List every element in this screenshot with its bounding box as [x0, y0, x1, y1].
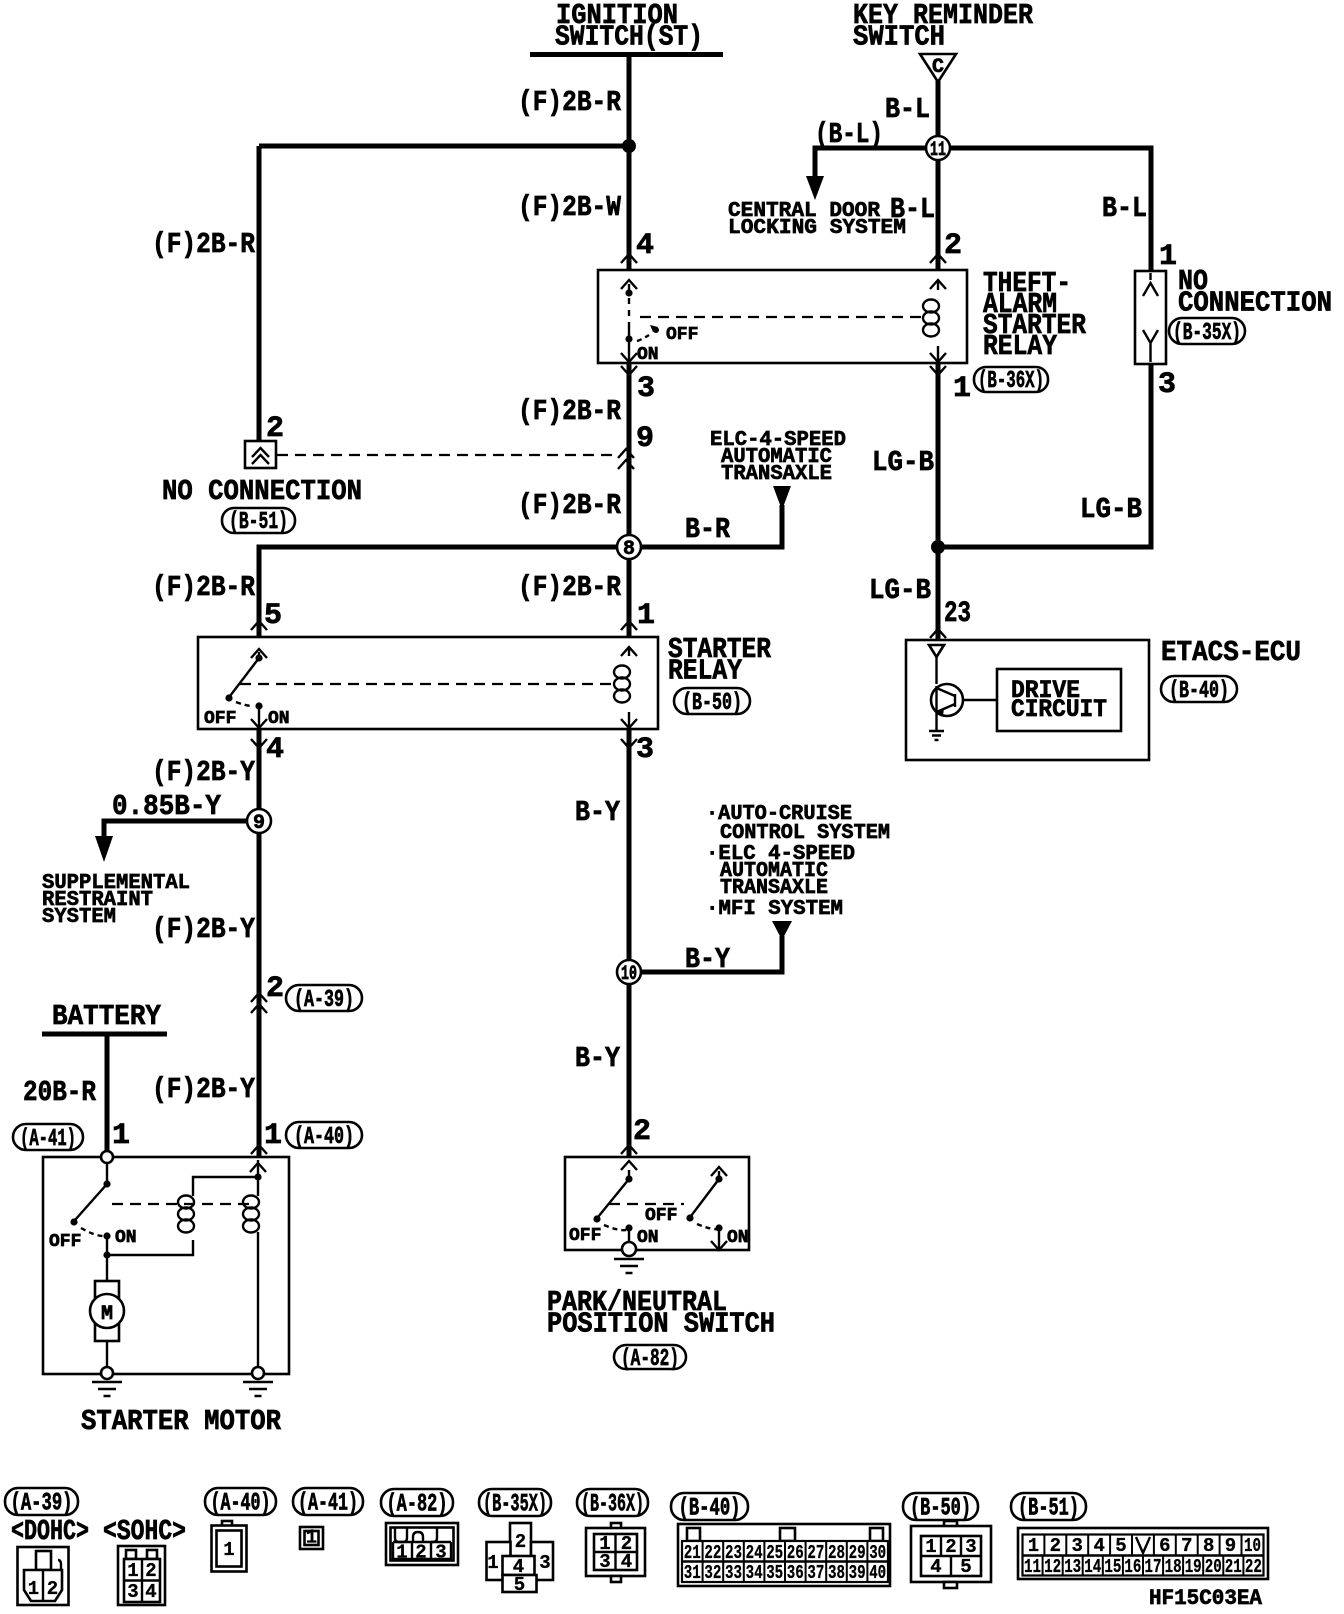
svg-text:BATTERY: BATTERY: [52, 1000, 162, 1033]
svg-text:2: 2: [1050, 1535, 1061, 1557]
ignition switch (ST) label: [555, 0, 703, 54]
svg-text:ON: ON: [268, 709, 290, 729]
theft relay coil: [923, 281, 939, 361]
svg-text:33: 33: [725, 1562, 742, 1584]
svg-text:22: 22: [704, 1542, 721, 1564]
transistor Q1 drive: [931, 657, 997, 730]
svg-text:29: 29: [849, 1542, 866, 1564]
svg-text:1: 1: [487, 1552, 498, 1574]
svg-text:4: 4: [636, 229, 654, 263]
NO CONNECTION label right: [1178, 265, 1332, 320]
svg-text:0.85B-Y: 0.85B-Y: [112, 790, 222, 823]
wire theft pin3 down to node 8: [627, 363, 632, 637]
connector pill B-51: [1011, 1493, 1086, 1523]
svg-text:(B-50): (B-50): [682, 690, 742, 717]
svg-text:(B-35X): (B-35X): [1173, 320, 1241, 347]
svg-text:OFF: OFF: [204, 709, 236, 729]
connector pill B-40: [1161, 676, 1237, 705]
svg-text:8: 8: [1203, 1535, 1214, 1557]
svg-text:(B-51): (B-51): [1018, 1494, 1079, 1523]
svg-text:2: 2: [945, 1536, 956, 1558]
svg-text:SYSTEM: SYSTEM: [42, 905, 116, 929]
arrow to central door locking system: [806, 176, 824, 200]
svg-text:1: 1: [223, 1539, 234, 1561]
ground symbol right: [243, 1382, 273, 1396]
connector pill A-39: [286, 985, 362, 1014]
wire battery down: [105, 1034, 110, 1152]
svg-text:TRANSAXLE: TRANSAXLE: [721, 462, 832, 486]
connector pill A-40: [286, 1122, 362, 1151]
svg-text:(B-36X): (B-36X): [978, 368, 1044, 395]
svg-text:B-R: B-R: [685, 513, 731, 546]
node 11: [926, 136, 950, 162]
starter relay dashed link: [240, 683, 612, 685]
pin 3 exit chevron below theft box: [621, 366, 637, 375]
svg-text:1: 1: [127, 1560, 138, 1582]
svg-text:(B-36X): (B-36X): [581, 1490, 644, 1519]
A-82 pin2 chevrons: [621, 1145, 637, 1154]
svg-text:4: 4: [266, 733, 284, 767]
svg-text:3: 3: [127, 1581, 138, 1603]
svg-text:2: 2: [266, 972, 284, 1006]
drive circuit box: [997, 669, 1121, 731]
wire left branch down to B-51: [257, 146, 262, 442]
svg-text:1: 1: [1028, 1535, 1039, 1557]
svg-text:(A-82): (A-82): [387, 1490, 448, 1519]
svg-text:2: 2: [145, 1560, 156, 1582]
starter motor dashed link: [112, 1203, 250, 1205]
svg-text:C: C: [932, 56, 944, 79]
svg-text:ETACS-ECU: ETACS-ECU: [1161, 636, 1301, 669]
svg-text:1: 1: [925, 1536, 936, 1558]
svg-text:(F)2B-R: (F)2B-R: [152, 228, 256, 261]
svg-text:·MFI SYSTEM: ·MFI SYSTEM: [706, 897, 843, 921]
svg-text:ON: ON: [637, 1228, 659, 1248]
svg-text:1: 1: [112, 1119, 130, 1153]
ground ring left: [101, 1367, 113, 1379]
battery terminal bar: [42, 1032, 167, 1037]
svg-text:LG-B: LG-B: [869, 574, 931, 607]
arrow from ELC transaxle: [773, 486, 791, 510]
svg-text:2: 2: [515, 1531, 526, 1553]
connector B-36X pinout: [586, 1523, 645, 1582]
svg-text:3: 3: [965, 1536, 976, 1558]
pin 5 chevrons: [251, 621, 267, 630]
connector pill A-82: [614, 1345, 686, 1373]
node 8: [617, 535, 641, 561]
wire node8 left branch: [259, 547, 629, 637]
wire B-35X down and across: [938, 364, 1151, 547]
park dashed link: [609, 1203, 684, 1205]
wire ELC arrow to node 8: [629, 505, 782, 547]
svg-text:5: 5: [960, 1556, 971, 1578]
svg-text:SWITCH: SWITCH: [853, 21, 945, 54]
svg-text:(F)2B-Y: (F)2B-Y: [152, 756, 256, 789]
connector A-40 pinout: [212, 1521, 247, 1572]
svg-text:LG-B: LG-B: [1080, 493, 1142, 526]
svg-text:11: 11: [1024, 1556, 1041, 1578]
svg-text:4: 4: [1093, 1535, 1104, 1557]
svg-text:1: 1: [953, 372, 971, 406]
svg-text:(B-35X): (B-35X): [483, 1490, 547, 1519]
svg-text:12: 12: [1044, 1556, 1061, 1578]
svg-text:B-L: B-L: [890, 193, 935, 226]
svg-text:4: 4: [621, 1551, 632, 1573]
connector B-50 pinout: [911, 1521, 991, 1588]
wire horizontal ignition branch: [259, 144, 629, 149]
wire MFI arrow to node 10: [629, 936, 782, 972]
svg-text:23: 23: [944, 597, 971, 631]
svg-text:2: 2: [415, 1542, 426, 1564]
svg-text:RELAY: RELAY: [668, 655, 743, 688]
svg-text:(B-40): (B-40): [1169, 678, 1229, 705]
svg-text:5: 5: [514, 1574, 525, 1596]
svg-text:15: 15: [1104, 1556, 1121, 1578]
svg-text:3: 3: [539, 1552, 550, 1574]
svg-text:28: 28: [828, 1542, 845, 1564]
svg-text:39: 39: [849, 1562, 866, 1584]
park ground ring: [622, 1242, 636, 1256]
auto-cruise / ELC / MFI list: [706, 802, 890, 921]
connector pill B-50: [903, 1493, 978, 1523]
pull-in coil: [178, 1177, 258, 1233]
svg-text:18: 18: [1165, 1556, 1182, 1578]
svg-text:CIRCUIT: CIRCUIT: [1011, 695, 1107, 724]
junction LG-B: [931, 540, 945, 554]
ELC-4-speed automatic transaxle label: [710, 428, 846, 486]
svg-text:STARTER MOTOR: STARTER MOTOR: [81, 1405, 282, 1438]
ETACS pin triangle: [929, 645, 944, 657]
ignition switch terminal bar: [530, 52, 723, 57]
svg-text:B-L: B-L: [885, 93, 930, 126]
connector B-35X pinout: [487, 1523, 554, 1596]
svg-text:3: 3: [1158, 368, 1176, 402]
node 9: [247, 809, 271, 835]
svg-text:21: 21: [1225, 1556, 1242, 1578]
starter relay label: [668, 633, 772, 688]
junction ignition branch: [622, 139, 636, 153]
pin 23 chevron above ETACS: [930, 629, 946, 638]
svg-text:8: 8: [623, 538, 635, 561]
svg-text:4: 4: [145, 1581, 156, 1603]
wire node9 branch to SRS: [104, 821, 247, 838]
park ground symbol: [614, 1259, 644, 1273]
hold-in coil: [243, 1160, 266, 1371]
svg-text:(F)2B-R: (F)2B-R: [518, 489, 622, 522]
ground ring right: [252, 1367, 264, 1379]
motor M: [90, 1255, 124, 1368]
connector pill A-41: [13, 1124, 83, 1153]
svg-text:ON: ON: [637, 345, 659, 365]
pin 4 chevron below box: [251, 739, 267, 748]
connector pill B-36X: [577, 1489, 648, 1519]
central door locking system label: [728, 199, 906, 240]
svg-text:(B-50): (B-50): [910, 1494, 971, 1523]
svg-text:10: 10: [621, 963, 637, 986]
svg-text:NO CONNECTION: NO CONNECTION: [162, 475, 362, 508]
svg-text:POSITION SWITCH: POSITION SWITCH: [547, 1308, 775, 1341]
svg-text:25: 25: [766, 1542, 783, 1564]
svg-text:1: 1: [396, 1542, 407, 1564]
svg-text:(F)2B-R: (F)2B-R: [518, 395, 622, 428]
svg-text:RELAY: RELAY: [983, 330, 1058, 363]
connector pill B-36X: [974, 367, 1048, 395]
theft relay left pin chevron inside: [621, 280, 637, 289]
svg-text:7: 7: [1181, 1535, 1192, 1557]
ETACS-ECU box: [906, 640, 1149, 760]
starter relay coil: [614, 648, 630, 727]
svg-text:1: 1: [264, 1119, 282, 1153]
svg-text:(A-39): (A-39): [11, 1489, 73, 1518]
svg-text:(B-40): (B-40): [679, 1494, 741, 1523]
connector A-41 pinout: [300, 1527, 323, 1550]
connector A-82 pinout: [386, 1523, 458, 1565]
svg-text:(F)2B-Y: (F)2B-Y: [152, 1073, 256, 1106]
pin 2 chevrons: [930, 254, 946, 263]
wire ignition to junction: [627, 55, 632, 149]
pin 1 chevrons: [621, 621, 637, 630]
park right switch: [686, 1167, 727, 1250]
svg-text:9: 9: [1225, 1535, 1236, 1557]
theft relay coil chevrons inside: [930, 280, 946, 289]
svg-text:(F)2B-Y: (F)2B-Y: [152, 913, 256, 946]
connector pill A-39: [5, 1488, 78, 1518]
svg-text:2: 2: [633, 1115, 651, 1149]
svg-text:20: 20: [1205, 1556, 1222, 1578]
wire key reminder down: [936, 80, 941, 270]
starter motor junction below ON: [103, 1251, 110, 1258]
park/neutral position switch label: [547, 1286, 775, 1341]
wire starter relay pin3 down: [627, 729, 632, 1157]
arrow to supplemental restraint system: [95, 836, 113, 862]
pin 1 exit chevron below theft box: [930, 366, 946, 375]
connector A-39 DOHC pinout: [18, 1547, 69, 1605]
svg-text:20B-R: 20B-R: [23, 1076, 97, 1109]
svg-text:35: 35: [766, 1562, 783, 1584]
svg-text:31: 31: [684, 1562, 701, 1584]
wire theft pin1 down to ETACS: [936, 363, 941, 640]
node 10: [617, 960, 641, 986]
svg-text:OFF: OFF: [645, 1206, 677, 1226]
connector pill A-82: [381, 1489, 453, 1519]
park/neutral position switch box: [565, 1157, 749, 1250]
connector pill B-35X: [1169, 318, 1245, 347]
svg-text:23: 23: [725, 1542, 742, 1564]
svg-text:9: 9: [636, 422, 654, 456]
svg-text:30: 30: [869, 1542, 886, 1564]
wire node 11 to right column: [950, 148, 1151, 271]
svg-text:(A-40): (A-40): [294, 1124, 354, 1151]
starter motor switch: [70, 1163, 110, 1255]
svg-text:11: 11: [930, 139, 946, 162]
svg-text:(F)2B-R: (F)2B-R: [518, 86, 622, 119]
svg-text:LG-B: LG-B: [872, 446, 934, 479]
starter relay coil chevrons: [621, 647, 637, 656]
pin 9 chevrons on dashed: [618, 449, 634, 458]
svg-text:40: 40: [869, 1562, 886, 1584]
wire ON to pull-in coil: [107, 1240, 193, 1255]
transistor ground: [929, 731, 944, 740]
pin 3 chevron below box: [621, 739, 637, 748]
starter relay bottom left chevron: [251, 719, 267, 728]
starter motor box: [43, 1157, 289, 1374]
dashed line B-51 to center: [277, 454, 616, 456]
arrow from MFI systems: [772, 921, 792, 940]
svg-text:6: 6: [1159, 1535, 1170, 1557]
svg-text:CONNECTION: CONNECTION: [1178, 287, 1332, 320]
svg-text:(F)2B-R: (F)2B-R: [518, 571, 622, 604]
svg-text:(A-41): (A-41): [298, 1489, 358, 1518]
key reminder switch label: [853, 0, 1034, 54]
svg-text:27: 27: [807, 1542, 824, 1564]
svg-text:2: 2: [47, 1578, 58, 1600]
connector B-40 pinout: [678, 1524, 890, 1586]
svg-text:3: 3: [435, 1542, 446, 1564]
svg-text:ON: ON: [115, 1228, 137, 1248]
svg-text:(A-39): (A-39): [294, 987, 354, 1014]
pin 4 chevrons: [621, 254, 637, 263]
svg-text:1: 1: [1159, 240, 1177, 274]
svg-text:17: 17: [1145, 1556, 1162, 1578]
svg-text:M: M: [101, 1303, 113, 1326]
svg-text:21: 21: [684, 1542, 701, 1564]
svg-text:19: 19: [1185, 1556, 1202, 1578]
connector pill B-35X: [479, 1489, 551, 1519]
svg-text:37: 37: [807, 1562, 824, 1584]
connector pill B-50: [674, 688, 750, 717]
svg-text:13: 13: [1064, 1556, 1081, 1578]
svg-text:1: 1: [306, 1527, 317, 1549]
theft-alarm starter relay box: [598, 270, 967, 363]
theft relay dashed link: [640, 316, 928, 318]
A-41 connector ring at starter motor: [101, 1151, 113, 1163]
svg-text:9: 9: [253, 812, 265, 835]
svg-text:B-Y: B-Y: [575, 796, 621, 829]
theft relay bottom left chevron: [621, 353, 637, 362]
theft relay switch: [625, 284, 659, 361]
connector pill B-51: [222, 508, 295, 536]
svg-text:1: 1: [28, 1578, 39, 1600]
svg-text:<SOHC>: <SOHC>: [103, 1515, 186, 1548]
svg-text:4: 4: [930, 1556, 941, 1578]
svg-text:B-Y: B-Y: [685, 943, 731, 976]
ground symbol left: [92, 1382, 122, 1396]
svg-text:14: 14: [1084, 1556, 1101, 1578]
svg-text:HF15C03EA: HF15C03EA: [1149, 1585, 1262, 1611]
svg-text:1: 1: [637, 599, 655, 633]
svg-text:2: 2: [944, 229, 962, 263]
svg-text:38: 38: [828, 1562, 845, 1584]
svg-text:3: 3: [637, 372, 655, 406]
svg-text:ON: ON: [727, 1228, 749, 1248]
svg-text:32: 32: [704, 1562, 721, 1584]
connector A-39 SOHC pinout: [118, 1546, 165, 1605]
svg-text:OFF: OFF: [49, 1232, 81, 1252]
starter relay switch: [225, 649, 267, 728]
svg-text:(A-41): (A-41): [20, 1126, 76, 1153]
svg-text:(B-51): (B-51): [229, 509, 288, 536]
svg-text:(F)2B-W: (F)2B-W: [518, 191, 622, 224]
svg-text:(F)2B-R: (F)2B-R: [152, 571, 256, 604]
svg-text:24: 24: [746, 1542, 763, 1564]
svg-text:(A-40): (A-40): [211, 1489, 271, 1518]
NO CONNECTION B-51 connector: [245, 441, 276, 468]
svg-text:LOCKING SYSTEM: LOCKING SYSTEM: [728, 216, 906, 240]
svg-text:34: 34: [746, 1562, 763, 1584]
svg-text:16: 16: [1124, 1556, 1141, 1578]
A-40 crossing chevrons: [251, 1145, 267, 1154]
key reminder connector C triangle: [920, 54, 956, 82]
svg-text:36: 36: [787, 1562, 804, 1584]
svg-text:3: 3: [599, 1551, 610, 1573]
theft-alarm starter relay label: [983, 267, 1087, 363]
park left switch: [593, 1161, 637, 1244]
svg-text:OFF: OFF: [666, 325, 698, 345]
svg-text:3: 3: [1071, 1535, 1082, 1557]
svg-text:10: 10: [1244, 1535, 1261, 1557]
svg-text:22: 22: [1245, 1556, 1262, 1578]
NO CONNECTION B-35X connector: [1135, 271, 1166, 364]
svg-text:5: 5: [1115, 1535, 1126, 1557]
connector pill A-40: [205, 1488, 276, 1518]
svg-text:(A-82): (A-82): [621, 1346, 679, 1373]
connector B-51 pinout: [1018, 1528, 1268, 1579]
connector pill A-41: [293, 1488, 363, 1518]
svg-text:OFF: OFF: [569, 1226, 601, 1246]
svg-text:SWITCH(ST): SWITCH(ST): [555, 21, 703, 54]
svg-text:<DOHC>: <DOHC>: [11, 1515, 89, 1548]
wire starter relay pin4 down: [257, 729, 262, 1157]
svg-text:B-Y: B-Y: [575, 1042, 621, 1075]
wire center down to theft relay: [627, 146, 632, 270]
svg-text:3: 3: [636, 733, 654, 767]
connector pill B-40: [671, 1493, 748, 1523]
svg-text:B-L: B-L: [1102, 192, 1147, 225]
starter relay box: [198, 637, 658, 729]
supplemental restraint system label: [42, 871, 190, 929]
wire branch to central door locking: [815, 148, 938, 178]
svg-text:26: 26: [787, 1542, 804, 1564]
A-39 crossing chevrons: [251, 993, 267, 1002]
